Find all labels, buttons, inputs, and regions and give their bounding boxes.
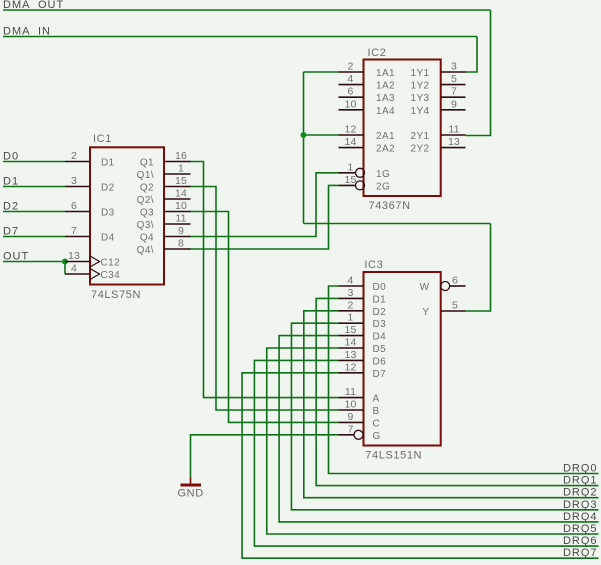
svg-text:GND: GND — [178, 488, 204, 500]
pin 6 stub IC2 — [339, 96, 364, 98]
pin 1 stub IC3 — [339, 322, 364, 324]
wire DMA OUT net vertical to IC2 pin 11 — [466, 10, 491, 136]
svg-text:3: 3 — [451, 61, 457, 73]
svg-text:15: 15 — [175, 175, 187, 187]
pin 14 stub IC1 — [164, 198, 191, 200]
svg-text:74367N: 74367N — [369, 200, 411, 212]
svg-text:1G: 1G — [376, 169, 390, 180]
svg-text:Q3\: Q3\ — [137, 220, 154, 231]
svg-text:11: 11 — [175, 213, 186, 225]
svg-text:IC3: IC3 — [364, 259, 383, 271]
svg-text:OUT: OUT — [38, 0, 64, 11]
svg-text:D4: D4 — [101, 233, 115, 244]
svg-text:9: 9 — [178, 225, 184, 237]
pin 13 stub IC1 — [65, 261, 90, 263]
pin 11 stub IC3 — [339, 397, 364, 399]
svg-text:11: 11 — [345, 386, 356, 398]
svg-text:15: 15 — [344, 174, 356, 186]
svg-text:3: 3 — [71, 175, 77, 187]
svg-text:D0: D0 — [3, 151, 19, 163]
pin 7 stub IC3 — [339, 434, 355, 436]
svg-text:C12: C12 — [101, 258, 121, 269]
pin 1 stub IC2 — [339, 172, 356, 174]
svg-text:D2: D2 — [101, 183, 115, 194]
svg-text:13: 13 — [448, 136, 460, 148]
wire DRQ7 net — [242, 373, 598, 558]
wire Q1 to A net — [190, 162, 339, 398]
op-amp IC1 74LS75N box — [90, 147, 164, 284]
svg-text:4: 4 — [347, 275, 353, 287]
pin 4 stub IC3 — [339, 285, 364, 287]
wire DMA OUT net horizontal — [3, 9, 491, 11]
svg-text:1Y2: 1Y2 — [411, 81, 430, 92]
svg-text:74LS151N: 74LS151N — [365, 450, 422, 462]
wire DRQ3 net — [291, 323, 598, 510]
svg-text:6: 6 — [71, 200, 77, 212]
wire Q3 to C net — [190, 212, 339, 423]
wire DRQ0 net — [329, 286, 599, 474]
pin 5 stub IC2 — [441, 84, 466, 86]
pin 2 stub IC3 — [339, 310, 364, 312]
svg-text:DRQ6: DRQ6 — [563, 535, 598, 547]
wire D1 net — [3, 186, 65, 188]
pin 9 stub IC2 — [441, 109, 466, 111]
pin 11 stub IC2 — [441, 134, 466, 136]
wire DRQ2 net — [304, 311, 599, 498]
wire DRQ1 net — [316, 298, 598, 485]
node junction at OUT — [62, 259, 68, 265]
pin 6 stub IC3 — [450, 285, 466, 287]
svg-text:Q3: Q3 — [140, 208, 154, 219]
op-amp IC3 74LS151N box — [364, 272, 441, 446]
svg-text:Q1: Q1 — [140, 158, 154, 169]
svg-text:10: 10 — [344, 399, 356, 411]
svg-text:Q2: Q2 — [140, 183, 154, 194]
svg-text:IN: IN — [38, 26, 51, 38]
wire DMA IN net vertical to IC2 pin 3 — [466, 37, 478, 73]
svg-text:D2: D2 — [373, 307, 387, 318]
svg-text:15: 15 — [344, 324, 356, 336]
pin 3 stub IC3 — [339, 297, 364, 299]
svg-text:D5: D5 — [373, 344, 387, 355]
svg-text:Q4: Q4 — [140, 233, 154, 244]
svg-text:2Y1: 2Y1 — [411, 131, 430, 142]
pin 3 stub IC1 — [65, 186, 90, 188]
pin 9 stub IC1 — [164, 236, 191, 238]
pin 5 stub IC3 — [441, 310, 466, 312]
svg-text:G: G — [373, 431, 381, 442]
svg-text:D3: D3 — [373, 319, 387, 330]
pin 10 stub IC1 — [164, 211, 191, 213]
pin 4 stub IC2 — [339, 84, 364, 86]
wire Y net to IC2 pin 12 — [304, 134, 339, 136]
svg-text:DMA: DMA — [3, 0, 30, 11]
svg-text:D4: D4 — [373, 332, 387, 343]
svg-text:6: 6 — [452, 275, 458, 287]
pin 4 stub IC1 — [65, 273, 90, 275]
svg-text:2: 2 — [71, 150, 77, 162]
svg-text:OUT: OUT — [3, 251, 29, 263]
pin 2 stub IC2 — [339, 71, 364, 73]
svg-text:9: 9 — [451, 98, 457, 110]
svg-text:2A1: 2A1 — [376, 131, 395, 142]
pin 14 stub IC2 — [339, 147, 364, 149]
pin 9 stub IC3 — [339, 421, 364, 423]
op-amp IC2 74367N box — [364, 60, 441, 197]
svg-text:1Y1: 1Y1 — [411, 68, 430, 79]
svg-text:C: C — [373, 418, 381, 429]
pin 12 stub IC3 — [339, 372, 364, 374]
svg-text:5: 5 — [451, 73, 457, 85]
svg-text:A: A — [373, 394, 380, 405]
svg-text:5: 5 — [452, 300, 458, 312]
svg-text:74LS75N: 74LS75N — [91, 289, 141, 301]
pin 15 stub IC3 — [339, 335, 364, 337]
svg-text:4: 4 — [71, 263, 77, 275]
svg-text:2A2: 2A2 — [376, 144, 395, 155]
svg-text:3: 3 — [347, 287, 353, 299]
svg-text:W: W — [420, 282, 430, 293]
svg-text:IC2: IC2 — [368, 47, 387, 59]
node junction at IC2 pin 12 — [301, 132, 307, 138]
svg-text:7: 7 — [451, 86, 457, 98]
svg-text:B: B — [373, 406, 380, 417]
pin 10 stub IC3 — [339, 409, 364, 411]
svg-text:1: 1 — [347, 312, 353, 324]
svg-text:DRQ3: DRQ3 — [563, 499, 598, 511]
svg-text:Q1\: Q1\ — [137, 170, 154, 181]
pin 8 stub IC1 — [164, 248, 191, 250]
pin 12 stub IC2 — [339, 134, 364, 136]
svg-text:1: 1 — [347, 161, 353, 173]
svg-text:1Y4: 1Y4 — [411, 106, 430, 117]
wire D0 net — [3, 161, 65, 163]
clock chevron C12 — [90, 256, 100, 267]
pin 15 stub IC1 — [164, 186, 191, 188]
wire Y net vertical to IC2 1A1/2A1 — [303, 72, 305, 224]
pin 15 stub IC2 — [339, 184, 356, 186]
svg-text:14: 14 — [175, 188, 187, 200]
svg-text:14: 14 — [344, 136, 356, 148]
wire Q4 to 1G net — [190, 173, 339, 237]
svg-text:8: 8 — [178, 238, 184, 250]
pin 16 stub IC1 — [164, 161, 191, 163]
clock chevron C34 — [90, 269, 100, 280]
pin 10 stub IC2 — [339, 109, 364, 111]
wire DRQ6 net — [254, 360, 598, 546]
ground stub — [190, 478, 192, 484]
svg-text:4: 4 — [347, 73, 353, 85]
svg-text:1A2: 1A2 — [376, 81, 395, 92]
wire DMA IN net horizontal — [3, 36, 477, 38]
pin 6 inversion bubble IC3 — [441, 282, 450, 291]
svg-text:7: 7 — [347, 423, 353, 435]
pin 2 stub IC1 — [65, 161, 90, 163]
pin 7 inversion bubble IC3 — [354, 430, 363, 439]
svg-text:DRQ5: DRQ5 — [563, 523, 598, 535]
wire Q2 to B net — [190, 187, 339, 411]
svg-text:9: 9 — [347, 411, 353, 423]
svg-text:D6: D6 — [373, 356, 387, 367]
svg-text:6: 6 — [347, 86, 353, 98]
svg-text:Q4\: Q4\ — [137, 245, 154, 256]
wire DRQ5 net — [267, 348, 599, 534]
svg-text:D3: D3 — [101, 208, 115, 219]
svg-text:DRQ1: DRQ1 — [563, 475, 598, 487]
svg-text:DRQ7: DRQ7 — [563, 547, 598, 559]
svg-text:2: 2 — [347, 299, 353, 311]
svg-text:D1: D1 — [3, 176, 19, 188]
wire OUT net branch to pin 4 — [64, 262, 66, 275]
svg-text:D7: D7 — [373, 369, 387, 380]
svg-text:7: 7 — [71, 225, 77, 237]
pin 11 stub IC1 — [164, 223, 191, 225]
svg-text:DRQ4: DRQ4 — [563, 511, 598, 523]
wire GND net to IC3 pin G — [191, 435, 339, 480]
svg-text:Q2\: Q2\ — [137, 195, 154, 206]
svg-text:13: 13 — [344, 349, 356, 361]
pin 13 stub IC3 — [339, 359, 364, 361]
svg-text:12: 12 — [344, 361, 356, 373]
svg-text:11: 11 — [448, 124, 459, 136]
wire DRQ4 net — [279, 336, 598, 522]
wire OUT net — [3, 261, 65, 263]
svg-text:1Y3: 1Y3 — [411, 93, 430, 104]
wire D2 net — [3, 211, 65, 213]
svg-text:1: 1 — [178, 163, 184, 175]
pin 1 inversion bubble IC2 — [356, 168, 365, 177]
svg-text:D2: D2 — [3, 201, 19, 213]
svg-text:D1: D1 — [101, 158, 115, 169]
svg-text:D1: D1 — [373, 294, 387, 305]
wire Y net horizontal — [304, 223, 491, 225]
svg-text:C34: C34 — [101, 270, 121, 281]
svg-text:10: 10 — [175, 200, 187, 212]
pin 15 inversion bubble IC2 — [356, 181, 365, 190]
svg-text:12: 12 — [344, 124, 356, 136]
wire D7 net — [3, 236, 65, 238]
svg-text:DMA: DMA — [3, 26, 30, 38]
svg-text:13: 13 — [68, 250, 80, 262]
pin 7 stub IC2 — [441, 96, 466, 98]
svg-text:D7: D7 — [3, 226, 19, 238]
wire Q4\ to 2G net — [190, 185, 339, 249]
svg-text:10: 10 — [344, 98, 356, 110]
svg-text:DRQ0: DRQ0 — [563, 463, 598, 475]
svg-text:1A4: 1A4 — [376, 106, 395, 117]
svg-text:16: 16 — [175, 150, 187, 162]
pin 13 stub IC2 — [441, 147, 466, 149]
wire Y net from IC3 pin 5 up — [466, 224, 491, 312]
svg-text:Y: Y — [422, 307, 429, 318]
pin 3 stub IC2 — [441, 71, 466, 73]
ground bar — [181, 484, 202, 487]
svg-text:1A1: 1A1 — [376, 68, 395, 79]
svg-text:1A3: 1A3 — [376, 93, 395, 104]
svg-text:2Y2: 2Y2 — [411, 144, 430, 155]
svg-text:D0: D0 — [373, 282, 387, 293]
pin 6 stub IC1 — [65, 211, 90, 213]
svg-text:IC1: IC1 — [93, 133, 112, 145]
pin 14 stub IC3 — [339, 347, 364, 349]
pin 1 stub IC1 — [164, 173, 191, 175]
pin 7 stub IC1 — [65, 236, 90, 238]
svg-text:14: 14 — [344, 337, 356, 349]
wire Y net to IC2 pin 2 — [304, 71, 339, 73]
svg-text:2G: 2G — [376, 181, 390, 192]
svg-text:DRQ2: DRQ2 — [563, 487, 598, 499]
svg-text:2: 2 — [347, 61, 353, 73]
